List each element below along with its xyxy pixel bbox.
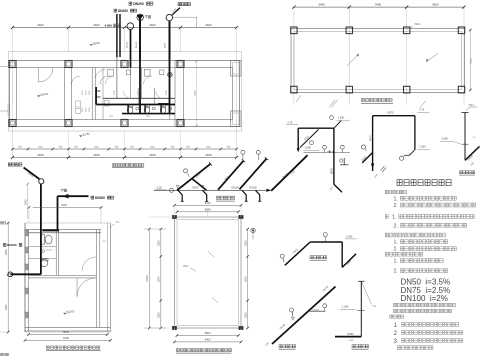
svg-text:DN100 i=2%: DN100 i=2% [401, 294, 448, 303]
svg-text:DN100: DN100 [313, 309, 320, 311]
svg-text:DN200: DN200 [95, 196, 105, 200]
svg-text:3: 3 [394, 338, 398, 345]
svg-text:-1.05: -1.05 [156, 187, 162, 190]
svg-text:3300: 3300 [244, 312, 247, 318]
svg-text:-1.05: -1.05 [348, 340, 354, 342]
svg-text:3400: 3400 [149, 23, 156, 27]
svg-text:3300: 3300 [158, 312, 161, 318]
svg-text:1.300: 1.300 [419, 145, 426, 148]
svg-text:2: 2 [394, 330, 398, 337]
svg-text:DN15: DN15 [89, 107, 91, 112]
svg-text:DN15: DN15 [82, 107, 84, 112]
svg-text:1.: 1. [394, 240, 398, 246]
svg-text:7500: 7500 [194, 90, 197, 96]
svg-text:3400: 3400 [37, 153, 44, 157]
svg-text:DN100: DN100 [232, 188, 240, 190]
svg-text:.: . [398, 331, 399, 335]
svg-text:1: 1 [394, 322, 398, 329]
svg-text:3400: 3400 [25, 199, 28, 205]
svg-text:DN100: DN100 [136, 41, 138, 48]
svg-text:DN100: DN100 [127, 41, 129, 48]
svg-text:DN200: DN200 [133, 2, 144, 6]
svg-text:3400: 3400 [149, 153, 156, 157]
svg-text:3400: 3400 [375, 3, 382, 7]
svg-text:5840: 5840 [205, 207, 211, 211]
svg-text:1.: 1. [394, 196, 398, 202]
svg-text:11840: 11840 [146, 275, 149, 282]
svg-text:DN32: DN32 [332, 167, 334, 174]
svg-text:DN15: DN15 [82, 90, 84, 95]
svg-text:DN50: DN50 [348, 334, 355, 336]
svg-text:2.70: 2.70 [288, 121, 293, 124]
svg-text:2675: 2675 [109, 116, 113, 118]
svg-text:.: . [398, 323, 399, 327]
svg-text:1.: 1. [392, 215, 396, 221]
svg-text:4.900: 4.900 [105, 24, 113, 28]
svg-text:3400: 3400 [318, 3, 325, 7]
svg-text:3300: 3300 [158, 240, 161, 246]
svg-text:6140: 6140 [205, 201, 211, 205]
svg-text:2.70: 2.70 [419, 109, 424, 112]
svg-text:DN50: DN50 [165, 42, 167, 48]
svg-text:DN15: DN15 [85, 90, 87, 95]
svg-text:2.: 2. [394, 224, 398, 230]
svg-text:2.: 2. [394, 269, 398, 275]
svg-text:0.650: 0.650 [442, 138, 449, 141]
svg-text:3400: 3400 [205, 23, 212, 27]
svg-text:6400: 6400 [205, 338, 211, 342]
svg-text:7500: 7500 [470, 58, 473, 64]
svg-text:5800: 5800 [63, 330, 69, 334]
svg-text:DN100: DN100 [7, 243, 17, 247]
svg-text:0.250: 0.250 [346, 235, 353, 238]
svg-text:5240: 5240 [158, 276, 161, 282]
svg-text:DN15: DN15 [89, 90, 91, 95]
svg-text:DN75: DN75 [193, 188, 200, 190]
svg-text:DN50: DN50 [137, 90, 139, 95]
svg-text:1.050: 1.050 [305, 147, 312, 150]
svg-text:3450: 3450 [5, 304, 8, 310]
svg-text:4140: 4140 [61, 203, 67, 207]
svg-text:5240: 5240 [244, 276, 247, 282]
svg-text:DN75: DN75 [388, 113, 395, 115]
svg-text:5800: 5800 [205, 331, 211, 335]
svg-text:2950: 2950 [5, 249, 8, 255]
svg-text:1.300: 1.300 [338, 117, 345, 120]
svg-text:DN75: DN75 [114, 90, 116, 95]
svg-text:DN15: DN15 [85, 107, 87, 112]
svg-text:1.300: 1.300 [342, 306, 349, 309]
svg-text:DN100: DN100 [118, 9, 128, 13]
svg-text:3400: 3400 [37, 23, 44, 27]
svg-text:3400: 3400 [432, 3, 439, 7]
svg-text:YD-1: YD-1 [415, 22, 421, 26]
svg-text:DN75: DN75 [166, 90, 168, 95]
svg-text:3400: 3400 [93, 23, 100, 27]
svg-text:6400: 6400 [63, 336, 69, 340]
svg-text:2.: 2. [394, 203, 398, 209]
svg-text:3300: 3300 [244, 240, 247, 246]
svg-text:YD-1: YD-1 [469, 104, 475, 107]
svg-text:3400: 3400 [205, 153, 212, 157]
svg-text:2.: 2. [394, 247, 398, 253]
svg-text:YD-1: YD-1 [183, 265, 189, 268]
svg-text:1.: 1. [394, 259, 398, 265]
svg-text:.: . [398, 339, 399, 343]
svg-text:2675: 2675 [146, 116, 150, 118]
svg-text:3400: 3400 [93, 153, 100, 157]
svg-text:DN75: DN75 [370, 135, 372, 141]
svg-text:DN100: DN100 [250, 188, 258, 190]
